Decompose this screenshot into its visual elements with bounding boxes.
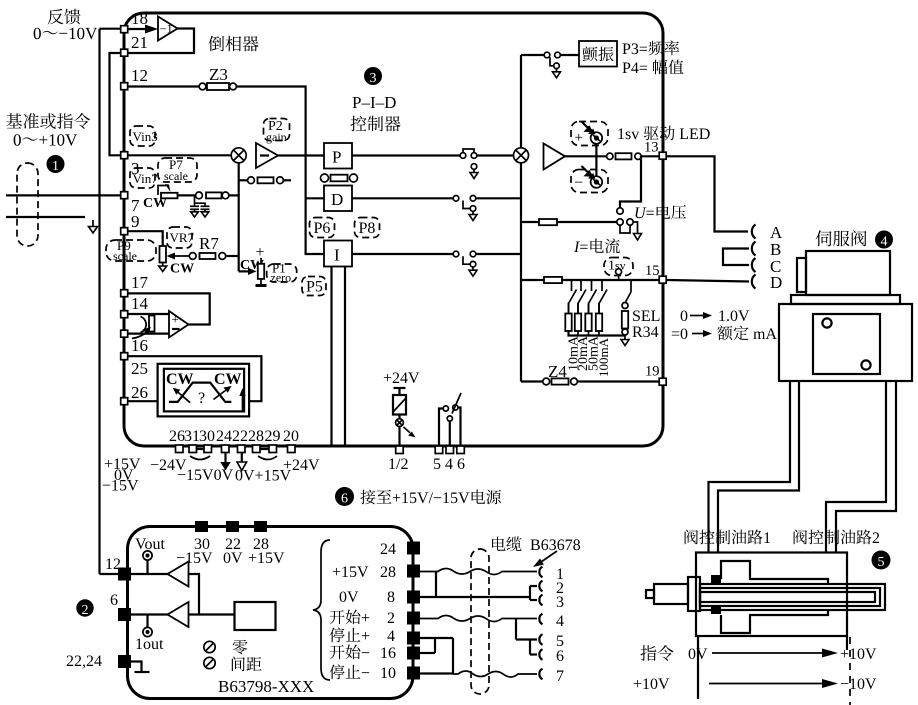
torque motor side block: [797, 258, 806, 292]
label box P7 scale: [158, 158, 197, 182]
svg-text:29: 29: [265, 428, 281, 445]
svg-text:31: 31: [184, 428, 200, 445]
ramp arrow left: [176, 391, 190, 403]
piston upper profile: [721, 561, 828, 584]
svg-text:6: 6: [341, 492, 348, 507]
wire pin8: [420, 596, 530, 598]
potentiometer P9 (VR7): [160, 246, 167, 263]
open down arrow under 22: [241, 453, 243, 463]
wire pot P7 to input resistor: [178, 194, 196, 196]
feedback magnet upper: [711, 575, 721, 584]
wire column to dither switch: [521, 54, 544, 56]
svg-text:CW: CW: [170, 262, 194, 277]
svg-text:0V: 0V: [688, 646, 708, 663]
svg-text:+: +: [575, 130, 583, 146]
svg-text:6: 6: [110, 592, 118, 609]
capacitor C2 to ground: [201, 205, 210, 207]
svg-text:30: 30: [199, 428, 215, 445]
demod block: [235, 602, 276, 630]
svg-text:24: 24: [380, 541, 396, 558]
right pin 10: [407, 667, 420, 680]
svg-text:P8: P8: [359, 220, 376, 237]
svg-text:VR7: VR7: [170, 230, 195, 245]
LED2 light arrows: [582, 166, 590, 174]
pipe A1: [709, 381, 791, 553]
label box Isv: [604, 258, 633, 276]
connector contact 7: [539, 669, 542, 680]
svg-text:1out: 1out: [135, 636, 164, 653]
pin 5: [435, 446, 443, 454]
svg-text:5: 5: [433, 456, 441, 473]
junction to filter caps: [195, 195, 206, 206]
relay coil K1: [393, 395, 406, 415]
svg-text:22,24: 22,24: [66, 653, 102, 670]
block D derivative: [324, 186, 352, 212]
LED D+ dashed box: [571, 122, 608, 146]
svg-text:0V: 0V: [223, 550, 243, 567]
label box P6: [310, 218, 335, 238]
svg-text:8: 8: [387, 589, 395, 606]
svg-text:D: D: [331, 190, 343, 209]
svg-text:+15V: +15V: [248, 550, 285, 567]
wire column to U resistor: [521, 221, 617, 223]
label 1sv drive LED: [618, 126, 709, 141]
svg-text:?: ?: [198, 390, 205, 407]
LVDT rod outer: [700, 584, 885, 610]
svg-text:25: 25: [131, 359, 148, 378]
op-amp A1 inverter -1: [158, 17, 178, 41]
op-amp A3 ramp: [169, 311, 189, 338]
svg-text:21: 21: [131, 33, 148, 52]
cylinder reference tick right: [846, 636, 848, 650]
svg-text:I: I: [334, 246, 340, 265]
wire P switch to summing X2: [477, 154, 514, 156]
bottom pin 30: [204, 445, 212, 453]
pin 12: [121, 83, 128, 90]
wire pin16 to ramp amp: [129, 333, 170, 335]
switch 546 blade: [452, 393, 461, 414]
svg-text:Z3: Z3: [209, 65, 228, 84]
wire pin16: [420, 652, 435, 654]
ramp generator box outer: [158, 364, 250, 417]
svg-text:4: 4: [881, 235, 888, 250]
svg-text:24: 24: [216, 428, 232, 445]
label box Vin3: [130, 126, 155, 146]
label box P1 zero: [267, 264, 297, 282]
resistor 50mA: [588, 304, 590, 314]
label 电缆 B63678: [492, 536, 580, 551]
wire pin14 to ramp amp: [129, 313, 170, 315]
selector contact U: [617, 208, 623, 214]
series resistor R13: [607, 153, 613, 159]
pin 16: [121, 330, 128, 337]
integrator cap wires to bottom edge: [330, 267, 332, 447]
lamp symbol under coil: [398, 415, 400, 420]
op-amp A2 error amp: [256, 143, 278, 168]
resistor 20mA: [577, 304, 579, 314]
capacitor C1 to ground: [190, 205, 199, 207]
connector contact 6: [539, 649, 542, 660]
svg-text:P–I–D: P–I–D: [352, 93, 396, 112]
wire R7 to node: [226, 255, 239, 257]
resistor R7: [189, 253, 196, 260]
feedback magnet lower: [711, 605, 721, 614]
wire feedback bus down left side: [98, 29, 100, 574]
jumper contacts 5-6: [529, 640, 531, 655]
wire selector to ground: [633, 222, 637, 234]
right pin 16: [407, 647, 420, 660]
right pin 24: [407, 542, 420, 555]
pin 30 top: [195, 521, 208, 532]
jumper wire B-C: [723, 249, 749, 266]
svg-text:+: +: [256, 244, 265, 261]
LED1 light arrows: [582, 122, 590, 130]
pin 9: [121, 228, 128, 235]
connector contact C: [752, 258, 756, 272]
chassis ground at 22,24: [131, 662, 142, 673]
lamp LED1: [591, 132, 603, 144]
svg-text:5: 5: [878, 555, 885, 570]
impedance Z3: [199, 83, 206, 90]
pin 7: [121, 192, 128, 199]
wire driver out to series resistor: [564, 155, 607, 157]
svg-text:Vin3: Vin3: [133, 129, 158, 144]
summing junction X1: [231, 148, 246, 163]
tilde under 28-29: [258, 456, 277, 460]
op-amp A5 buffer: [168, 562, 189, 587]
pipe A2: [718, 381, 799, 553]
screw span: [204, 657, 215, 668]
wire pin25 loop around ramp box: [129, 356, 262, 401]
svg-text:CW: CW: [214, 371, 242, 388]
label box P9 scale: [106, 240, 156, 261]
twisted pair cable shield (dashed capsule): [17, 163, 38, 246]
svg-text:2: 2: [387, 610, 395, 627]
svg-text:9: 9: [131, 212, 140, 231]
bottom pin 20: [288, 445, 296, 453]
svg-text:20: 20: [283, 428, 299, 445]
connector contact A: [752, 225, 756, 239]
pin 18: [121, 26, 128, 33]
svg-text:R34: R34: [632, 324, 659, 341]
wire buffer to demod path: [189, 574, 200, 615]
svg-text:6: 6: [556, 648, 564, 665]
pipe B2: [836, 381, 896, 553]
svg-text:10: 10: [380, 665, 396, 682]
right pin 8: [407, 591, 420, 604]
rod mount plate: [688, 577, 700, 611]
brace for IO group: [313, 540, 330, 680]
blade-to-resistor stubs: [568, 303, 570, 314]
svg-text:4: 4: [556, 613, 564, 630]
svg-text:+10V: +10V: [633, 676, 670, 693]
pin 12 left: [118, 568, 131, 581]
label 指令 0V +10V row: [641, 645, 674, 661]
pin 21: [121, 49, 128, 56]
ramp capacitor (trimmer): [141, 317, 147, 333]
wire command input -: [6, 216, 85, 218]
wire P box to P switch: [352, 154, 460, 156]
svg-text:19: 19: [645, 364, 660, 380]
jumper contacts 2-3: [529, 586, 531, 600]
svg-text:3: 3: [370, 71, 377, 86]
wire column corner to Z4: [521, 380, 543, 382]
piston lower profile: [721, 610, 828, 633]
wire D column to D box: [306, 197, 324, 199]
LVDT rod inner: [700, 592, 875, 602]
op-amp A4 output driver: [544, 144, 566, 170]
label I=电流: [574, 238, 620, 253]
svg-text:−10V: −10V: [840, 676, 877, 693]
wiper arrow on ramp cap: [132, 331, 148, 339]
switch S1 (P row): [460, 153, 466, 159]
wire pin18 to inverter with arrow: [129, 28, 153, 30]
wire resistor to inverting node: [229, 194, 239, 196]
ramp up arrow: [242, 393, 244, 411]
pin 22 top: [226, 521, 239, 532]
valve base plate: [791, 295, 900, 304]
pin 6 left: [118, 608, 131, 621]
switch 546 left leg: [439, 409, 443, 447]
svg-text:12: 12: [131, 66, 148, 85]
valve body: [779, 304, 912, 381]
indicator arrow: [404, 427, 411, 433]
svg-text:28: 28: [248, 428, 264, 445]
wire pin4: [420, 637, 453, 639]
svg-text:16: 16: [380, 645, 396, 662]
label U=电压: [636, 205, 687, 220]
pin 14: [121, 311, 128, 318]
svg-text:14: 14: [131, 294, 149, 313]
svg-text:+24V: +24V: [283, 457, 320, 474]
wire D box to D switch: [352, 197, 453, 199]
valve port circle 1: [822, 318, 831, 327]
svg-text:28: 28: [380, 564, 396, 581]
wire buffer2 to demod block: [189, 613, 235, 615]
wire resistor to pin 13: [641, 155, 658, 157]
wire coil to pin 1/2: [398, 427, 400, 447]
svg-text:R7: R7: [199, 234, 219, 253]
wire command input + to pin 7: [6, 194, 120, 196]
svg-text:26: 26: [169, 428, 185, 445]
summing junction X2: [514, 148, 529, 163]
transducer nub: [646, 590, 654, 598]
svg-text:17: 17: [131, 273, 149, 292]
jumper component under P: [321, 174, 329, 182]
wire pin21 loop to node 3: [110, 53, 121, 155]
transducer block: [654, 584, 688, 604]
wire pin26 to ramp box: [129, 400, 158, 402]
label box P8: [355, 218, 380, 238]
svg-text:+15V: +15V: [332, 564, 369, 581]
wire inverting node column: [238, 163, 240, 272]
ground arrow below input -: [92, 220, 94, 227]
solenoid supply T bar: [394, 387, 406, 389]
jumper 4 row to row7: [452, 638, 454, 674]
pin 17: [121, 290, 128, 297]
switch S2 (D row): [453, 196, 459, 202]
label 阀控制油路1: [685, 530, 770, 545]
Isv tap contact: [616, 269, 622, 275]
resistor 10mA: [568, 304, 570, 314]
connector contact 5: [539, 634, 542, 645]
marker 6: [335, 487, 354, 506]
potentiometer P7 on pin7 line: [161, 193, 178, 199]
label P3 P4: [623, 40, 680, 55]
resistor 100mA: [598, 304, 600, 314]
svg-text:B63798-XXX: B63798-XXX: [218, 677, 314, 696]
label 阀控制油路2: [794, 530, 880, 545]
resistor RU: [539, 219, 557, 225]
amplifier card U3 main enclosure (rounded box): [124, 13, 663, 446]
bottom pin 29: [269, 445, 277, 453]
marker 2: [76, 599, 93, 616]
pipe B1: [826, 381, 886, 553]
jumper wire 28-29: [260, 448, 269, 450]
input resistor R3: [196, 192, 203, 199]
switch S4 dither: [544, 52, 550, 58]
label box P2 gain: [264, 119, 290, 141]
switch 546 pole: [447, 416, 452, 421]
svg-text:13: 13: [644, 140, 659, 156]
label feedback 反馈: [48, 9, 81, 25]
switch S3 (I row): [453, 251, 459, 257]
svg-text:1: 1: [52, 159, 59, 174]
label 接至+15V/-15V电源: [360, 490, 501, 505]
oscillator block 颤振: [579, 41, 617, 67]
cable shield dashed capsule: [471, 549, 489, 694]
svg-text:−15V: −15V: [102, 478, 139, 495]
svg-text:26: 26: [131, 383, 148, 402]
bottom pin 28: [253, 445, 261, 453]
label 倒相器: [209, 36, 259, 52]
node marker 1: [47, 155, 65, 173]
solid down arrow under 24: [224, 453, 226, 463]
pin 6: [457, 446, 465, 454]
wire D switch to column: [476, 197, 521, 199]
wire node to P1 wiper with arrow: [239, 270, 252, 272]
label 基准或指令: [6, 113, 90, 129]
right pin 2: [407, 612, 420, 625]
wire pin28 to contact 1 (twisted): [420, 569, 537, 575]
block I integral: [324, 241, 352, 267]
wire row7 to contact 7 (twisted): [453, 671, 537, 677]
jumper 28-8: [435, 572, 437, 598]
wire inverter output loop to pin 21: [129, 29, 195, 54]
pin 28 top: [254, 521, 267, 532]
marker 5: [872, 551, 891, 570]
svg-text:12: 12: [105, 556, 121, 573]
terminal 1out: [143, 627, 152, 636]
wire Z3 to D/I column: [236, 87, 305, 199]
pin 4: [446, 446, 454, 454]
SEL blade from current row: [630, 280, 632, 292]
impedance Z4: [543, 378, 550, 385]
wire node3 to summing junction: [129, 154, 232, 156]
wire pin15 to contact D: [667, 280, 749, 282]
connector contact 2: [539, 581, 542, 592]
svg-text:Vin7: Vin7: [133, 171, 159, 186]
connector contact B: [752, 242, 756, 256]
valve spool window: [813, 314, 880, 374]
wire I box to I switch: [352, 253, 453, 255]
valve port circle 2: [861, 360, 870, 369]
wire pin2 to contact 4 (twisted): [420, 616, 537, 622]
ground arrow under P9: [162, 263, 164, 267]
svg-text:1.0V: 1.0V: [718, 308, 750, 325]
pin 1/2: [396, 446, 404, 454]
ramp generator box inner: [164, 369, 244, 412]
pin 22,24 left: [118, 655, 131, 668]
label box Vin7: [130, 168, 155, 188]
servo valve torque motor: [806, 251, 890, 295]
svg-text:0V: 0V: [339, 589, 359, 606]
demodulator card B63798 enclosure: [128, 527, 414, 699]
svg-text:1/2: 1/2: [388, 456, 408, 473]
wire switch to oscillator: [560, 54, 579, 56]
pin 3: [121, 152, 128, 159]
svg-text:2: 2: [82, 603, 89, 618]
wire pin12 to Z3: [129, 85, 200, 87]
svg-text:CW: CW: [166, 371, 194, 388]
svg-text:−15V: −15V: [176, 550, 213, 567]
jumper contact5 to row4: [515, 619, 517, 640]
pin 13: [659, 152, 666, 159]
svg-text:4: 4: [387, 628, 395, 645]
bottom pin 24: [222, 445, 230, 453]
svg-text:P6: P6: [314, 220, 331, 237]
right pin 4: [407, 632, 420, 645]
range resistor taps from current row: [571, 280, 573, 291]
wire pin9 to pot P9: [129, 231, 163, 246]
wire I switch to column: [476, 253, 521, 255]
svg-text:D: D: [770, 273, 782, 292]
svg-text:=0: =0: [671, 326, 688, 343]
pin 15: [659, 276, 666, 283]
summing column (dither to Z4): [520, 55, 522, 148]
svg-text:+10V: +10V: [840, 646, 877, 663]
svg-text:22: 22: [232, 428, 248, 445]
bottom pin 26b: [176, 445, 184, 453]
wire column to current row / pin15: [521, 279, 659, 281]
svg-text:15: 15: [645, 263, 660, 279]
svg-text:4: 4: [445, 456, 453, 473]
wire Z4 to pin 19: [577, 380, 658, 382]
svg-text:scale: scale: [164, 169, 188, 183]
wire feedback into pin 12: [100, 573, 119, 575]
label box P5: [302, 277, 326, 296]
svg-text:P: P: [332, 148, 341, 167]
pin 26: [121, 398, 128, 405]
jumper wire 31-30: [197, 448, 205, 450]
svg-text:3: 3: [556, 594, 564, 611]
tilde under 31-30: [190, 456, 210, 460]
connector contact 4: [539, 614, 542, 625]
LED D- dashed box: [571, 170, 608, 193]
ramp arrow right: [214, 389, 229, 400]
ramp waveform trapezoid: [169, 383, 231, 402]
feedback resistor R5 (floating): [239, 179, 248, 181]
LVDT rod middle: [700, 588, 880, 606]
svg-text:scale: scale: [113, 249, 137, 263]
selector contacts common row: [617, 219, 623, 225]
pin 19: [659, 378, 666, 385]
svg-text:+24V: +24V: [383, 370, 420, 387]
wire pin17 ramp feedback loop: [129, 293, 210, 324]
bottom pin 22: [238, 445, 246, 453]
wire column to I row: [306, 198, 324, 254]
switch 546 right leg: [458, 408, 461, 447]
